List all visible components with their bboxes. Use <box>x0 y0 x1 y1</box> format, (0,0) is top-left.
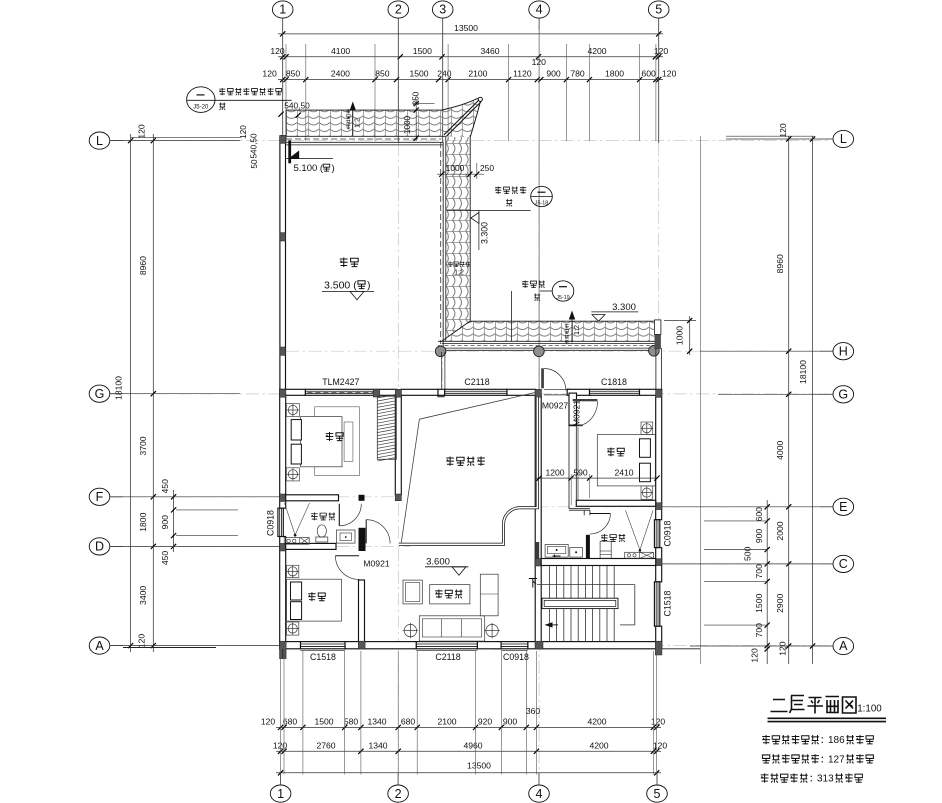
right bathroom shower <box>626 511 640 551</box>
window C1518 right wall <box>654 582 659 626</box>
right axis solid lines <box>726 138 820 140</box>
wall bedroom west lower <box>568 426 570 510</box>
svg-text:780: 780 <box>570 69 585 79</box>
roof band miter line <box>442 321 470 341</box>
dimension line bottom row1 <box>276 726 661 728</box>
dimension line 13500 bottom <box>276 772 661 774</box>
svg-text:50: 50 <box>250 159 259 169</box>
svg-text:120: 120 <box>662 69 677 79</box>
svg-text:1800: 1800 <box>605 69 624 79</box>
slope arrow top band <box>352 104 354 136</box>
svg-text:2900: 2900 <box>775 594 785 613</box>
svg-text:120: 120 <box>651 717 666 727</box>
svg-text:127: 127 <box>828 754 845 765</box>
svg-text:A: A <box>839 639 848 653</box>
svg-text:2410: 2410 <box>614 467 633 477</box>
hatched ladder strip <box>377 396 396 459</box>
door M0921 bedroom leaf <box>573 399 598 401</box>
stair down label <box>529 579 537 588</box>
living room void railing boundary <box>399 397 537 544</box>
svg-text:L: L <box>96 134 103 148</box>
svg-text:3.600: 3.600 <box>426 557 450 568</box>
door M0927 swing <box>544 369 566 391</box>
hall basin square <box>570 548 583 558</box>
svg-text:700: 700 <box>754 564 764 579</box>
dimension line right main segments <box>788 136 790 664</box>
svg-text:1: 1 <box>277 787 284 801</box>
svg-text:850: 850 <box>286 69 301 79</box>
wall bedroom west upper <box>569 393 577 425</box>
axis3 parapet H to G <box>441 352 443 389</box>
svg-text:18100: 18100 <box>798 360 808 384</box>
svg-text:1000: 1000 <box>403 115 412 134</box>
grid bubble L right <box>833 130 854 147</box>
sitting room armchair left <box>403 580 422 604</box>
left bathroom shower lines <box>285 503 296 535</box>
svg-text:J5-20: J5-20 <box>193 104 209 110</box>
bottom bedroom nightstand top <box>287 565 299 577</box>
title second floor plan <box>771 696 857 714</box>
dimension 1200/590/2410 <box>536 477 658 479</box>
eave ridge line <box>444 100 481 137</box>
vent shaft symbol top-left <box>288 140 291 163</box>
left bathroom toilet <box>316 537 328 542</box>
label sitting room <box>435 590 442 599</box>
window C0918 bottom <box>501 642 528 649</box>
stair direction line <box>537 584 635 586</box>
svg-text:H: H <box>839 344 848 358</box>
svg-text:450: 450 <box>160 551 170 566</box>
svg-text:2760: 2760 <box>316 741 335 751</box>
left axis solid lines <box>111 140 240 142</box>
svg-text:18100: 18100 <box>114 376 124 400</box>
svg-text:8960: 8960 <box>138 256 148 275</box>
wall axis 5 <box>656 397 662 520</box>
svg-text:1340: 1340 <box>368 741 387 751</box>
dimension line 13500 top <box>278 33 663 35</box>
svg-text:120: 120 <box>750 648 760 663</box>
grid bubble 3 top <box>432 1 453 18</box>
svg-text:J5-19: J5-19 <box>556 295 570 301</box>
svg-text:1200: 1200 <box>545 467 564 477</box>
svg-text:120: 120 <box>778 123 788 138</box>
window C2118 bottom <box>416 642 477 649</box>
door M0921 swing up (hall side) <box>365 520 367 544</box>
grid bubble E right <box>833 498 854 515</box>
beam under roof band bottom <box>438 340 656 342</box>
svg-text:900: 900 <box>546 69 561 79</box>
master bedroom bed <box>301 417 343 467</box>
svg-text:3.300: 3.300 <box>612 302 636 313</box>
svg-text:L: L <box>840 132 847 146</box>
wall axis 4 <box>535 395 541 641</box>
bedroom door jog wall <box>569 424 583 426</box>
sitting room coffee table <box>430 585 470 604</box>
title underline <box>768 717 887 719</box>
upturned eave corner <box>442 97 481 137</box>
svg-text:1500: 1500 <box>314 717 333 727</box>
svg-text:5: 5 <box>655 3 662 17</box>
roof tile band top <box>286 110 443 136</box>
axis5 wall blocks <box>656 389 662 397</box>
svg-text:M0927: M0927 <box>542 401 568 411</box>
svg-text:250: 250 <box>412 91 421 105</box>
column block G at TLM jamb <box>373 389 380 397</box>
master bed pillows <box>291 420 301 440</box>
terrace parapet top (dashed roof edge + wall) <box>286 138 441 140</box>
axis1 bottom dims block extension <box>282 649 284 659</box>
axis1 wall blocks <box>280 233 286 241</box>
svg-text:1000: 1000 <box>675 326 685 345</box>
svg-text:540,50: 540,50 <box>250 133 259 158</box>
grid bubble A right <box>833 637 854 654</box>
window C1518 bottom <box>301 642 346 649</box>
sitting room side table right <box>486 624 498 636</box>
wall bedroom/sitting room <box>359 580 365 642</box>
wall axis G segment right of M0927 <box>567 389 589 395</box>
grid bubble 1 bottom <box>270 785 291 802</box>
window TLM2427 <box>305 389 376 395</box>
svg-text:2100: 2100 <box>468 69 487 79</box>
grid bubble 5 top <box>648 1 669 18</box>
column block A wall mid <box>492 642 501 649</box>
grid bubble F left <box>89 488 110 505</box>
svg-text:120: 120 <box>653 741 668 751</box>
svg-text:G: G <box>95 387 105 401</box>
left bathroom floor strip <box>284 538 309 545</box>
grid centerline axis E <box>535 506 831 508</box>
svg-text:900: 900 <box>754 529 764 544</box>
grid bubble A left <box>89 637 110 654</box>
grid bubble 2 bottom <box>388 785 409 802</box>
door jamb wall at D <box>359 528 366 551</box>
svg-text:F: F <box>96 490 104 504</box>
hall bottom jog <box>569 508 590 510</box>
grid centerline axis C <box>535 563 831 565</box>
svg-text:8960: 8960 <box>775 254 785 273</box>
svg-text:E: E <box>839 500 847 514</box>
grid bubble G right <box>833 386 854 403</box>
dimension 250/1000 on top roof band <box>415 99 417 141</box>
dimension 1000/250 below eave <box>437 173 484 175</box>
svg-text:1000: 1000 <box>446 163 465 173</box>
svg-text:590: 590 <box>573 467 588 477</box>
wall axis G segment 1-2 <box>280 389 306 395</box>
wall axis 1 terrace parapet <box>280 137 286 389</box>
terrace label and level <box>340 258 348 268</box>
svg-text:920: 920 <box>478 717 493 727</box>
area text line 2 <box>762 755 769 763</box>
svg-text:120: 120 <box>239 125 248 139</box>
svg-text:240: 240 <box>437 69 452 79</box>
master bed runner <box>344 422 353 461</box>
svg-text:4100: 4100 <box>331 46 350 56</box>
svg-text:600: 600 <box>641 69 656 79</box>
svg-text:900: 900 <box>503 717 518 727</box>
svg-text:3700: 3700 <box>138 436 148 455</box>
svg-text:680: 680 <box>283 717 298 727</box>
svg-text:120: 120 <box>262 69 277 79</box>
bottom bedroom pillows <box>291 582 302 600</box>
svg-text:250: 250 <box>480 163 494 173</box>
grid centerline axis H <box>286 350 831 352</box>
dimension line top row2 <box>278 56 663 58</box>
door M0921 swing down (bedroom side) <box>335 555 359 557</box>
bathroom door leaf and swing (F wall) <box>338 504 340 526</box>
right extension vertical line <box>699 136 701 664</box>
svg-text:C0918: C0918 <box>266 510 276 536</box>
svg-text:3460: 3460 <box>480 46 499 56</box>
grid bubble 5 bottom <box>647 785 668 802</box>
svg-text:120: 120 <box>261 717 276 727</box>
grid centerline axis G <box>111 393 831 395</box>
svg-text:450: 450 <box>160 479 170 494</box>
bottom bedroom nightstand bottom <box>287 622 299 635</box>
svg-text:A: A <box>95 639 104 653</box>
svg-text:4200: 4200 <box>587 46 606 56</box>
top extension lines <box>285 44 287 141</box>
level mark 5.100 <box>289 150 300 158</box>
window C0918 left wall <box>278 508 283 536</box>
master nightstand top <box>286 404 299 417</box>
label right bedroom <box>607 448 614 457</box>
svg-text:680: 680 <box>401 717 416 727</box>
svg-text:C1518: C1518 <box>663 590 673 616</box>
window C0918 right wall <box>654 520 659 548</box>
svg-text:600: 600 <box>754 507 764 522</box>
svg-text:186: 186 <box>828 735 845 746</box>
wall axis 1 lower <box>280 395 286 508</box>
grid bubble D left <box>89 538 110 555</box>
level mark 3.300 right band <box>478 210 480 250</box>
grid centerline axis D <box>111 545 410 547</box>
grid centerline axis F <box>111 496 400 498</box>
wall axis G segment 2-3 <box>401 389 438 395</box>
slope label right band <box>448 262 453 267</box>
right bathroom floor strip <box>625 552 654 558</box>
svg-text:4960: 4960 <box>463 741 482 751</box>
dimension line bottom row2 <box>276 750 661 752</box>
svg-text:13500: 13500 <box>454 23 478 33</box>
svg-text:120: 120 <box>778 641 788 656</box>
slope arrow bottom band <box>571 313 573 343</box>
eave tip hook <box>478 97 482 101</box>
wall axis A <box>280 642 301 649</box>
stair handrail <box>542 598 618 608</box>
door M0921 bedroom swing <box>583 401 597 425</box>
dimension 1000 near H right <box>689 316 691 355</box>
svg-text:5.100 (: 5.100 ( <box>294 163 324 174</box>
window C1818 on G <box>590 389 640 395</box>
svg-text:1800: 1800 <box>138 512 148 531</box>
door jamb stub F wall <box>359 495 365 501</box>
svg-text:580: 580 <box>344 717 359 727</box>
left sub-dim tick lines <box>176 509 238 511</box>
dimension line right 18100 <box>812 136 814 664</box>
dimension line right sub segments <box>766 500 768 664</box>
svg-text:): ) <box>332 163 335 174</box>
round column at axis4/H <box>534 346 545 357</box>
void slant line top <box>419 392 536 419</box>
area text line 1 <box>762 735 770 744</box>
roof tile band right <box>442 137 470 341</box>
svg-text:1:2: 1:2 <box>572 325 581 335</box>
svg-text:4000: 4000 <box>775 441 785 460</box>
right sub-dim tick lines <box>704 520 768 522</box>
right bedroom pillows <box>640 439 651 458</box>
window C2118 on G <box>445 389 507 395</box>
svg-text:5: 5 <box>654 787 661 801</box>
round column at axis3/H <box>435 346 446 357</box>
dimension line top row3 <box>278 79 663 81</box>
svg-text:13500: 13500 <box>467 760 491 770</box>
wall axis 2 <box>395 395 401 495</box>
label master bedroom <box>326 432 334 441</box>
grid bubble 1 top <box>272 1 293 18</box>
svg-text:500: 500 <box>743 546 753 561</box>
dimension line left 18100 <box>130 134 132 652</box>
svg-text:2: 2 <box>395 3 402 17</box>
door jamb block M0927 left <box>567 389 569 396</box>
grid bubble C right <box>833 555 854 572</box>
svg-text:2: 2 <box>395 787 402 801</box>
wall axis G segment to axis5 <box>640 389 662 395</box>
svg-text:1500: 1500 <box>754 594 764 613</box>
detail bubble J5-18 railing note <box>531 186 553 206</box>
svg-text:3400: 3400 <box>138 586 148 605</box>
door right bathroom leaf and swing <box>590 513 611 515</box>
label living room void <box>446 457 454 466</box>
wall axis C stair top <box>541 559 656 566</box>
grid bubble H right <box>833 343 854 360</box>
roof tile band bottom <box>442 321 654 341</box>
svg-text:540,50: 540,50 <box>284 101 310 111</box>
svg-text:360: 360 <box>526 706 541 716</box>
master bedroom rug <box>315 407 360 476</box>
grid centerline axis 3 <box>442 143 444 397</box>
svg-text:4200: 4200 <box>589 741 608 751</box>
sitting room sofa main <box>419 616 484 641</box>
right bedroom nightstand top <box>641 422 653 435</box>
grid centerline axis L <box>111 140 831 142</box>
round column at axis5/H <box>649 346 660 357</box>
door M0927 leaf <box>541 368 544 388</box>
svg-text:C1518: C1518 <box>310 652 336 662</box>
svg-text:120: 120 <box>137 634 147 649</box>
svg-text:313: 313 <box>817 774 834 785</box>
svg-text:3.500 (: 3.500 ( <box>324 280 357 292</box>
svg-text:1:2: 1:2 <box>353 118 362 128</box>
area text line 3 <box>761 773 769 782</box>
grid centerline axis 4 <box>538 143 540 776</box>
svg-text:D: D <box>95 540 104 554</box>
terrace parapet right (dashed + wall) <box>440 142 442 344</box>
grid bubble 4 top <box>529 1 550 18</box>
svg-text:TLM2427: TLM2427 <box>322 377 359 387</box>
svg-text:4: 4 <box>536 3 543 17</box>
dimension line left sub 450/900/450 <box>173 490 175 552</box>
leader line meiren-kao <box>511 291 513 341</box>
label bottom bedroom <box>308 592 315 601</box>
sitting room side table left <box>404 624 416 636</box>
wall block right end of roof band <box>655 335 661 350</box>
grid bubble 2 top <box>388 1 409 18</box>
svg-text:M0921: M0921 <box>572 400 582 426</box>
void slant line left <box>401 419 419 543</box>
svg-text:1:100: 1:100 <box>857 704 882 715</box>
bottom bedroom bed <box>287 579 342 621</box>
wall axis D <box>286 543 336 549</box>
sitting room chair right <box>480 574 498 616</box>
grid bubble L left <box>89 132 110 149</box>
master nightstand bottom <box>286 468 299 481</box>
stair treads <box>548 566 550 641</box>
door jamb wall right bathroom <box>586 535 590 559</box>
left bathroom vanity <box>337 530 356 543</box>
svg-text:C2118: C2118 <box>435 652 460 662</box>
svg-text:4200: 4200 <box>587 717 606 727</box>
svg-text:850: 850 <box>375 69 390 79</box>
svg-text:2100: 2100 <box>437 717 456 727</box>
wall axis F bathroom top <box>286 495 339 501</box>
svg-text:120: 120 <box>137 124 147 139</box>
svg-text:1340: 1340 <box>367 717 386 727</box>
svg-text:2000: 2000 <box>775 521 785 540</box>
dimension line left segments <box>152 134 154 652</box>
axis5 wall H to G <box>655 348 657 390</box>
detail bubble J5-20 vent note <box>187 87 215 113</box>
grid centerline axis A <box>111 645 831 647</box>
svg-text:): ) <box>367 280 371 292</box>
svg-text:4: 4 <box>536 787 543 801</box>
svg-text:3.300: 3.300 <box>480 222 490 244</box>
svg-text:1:2: 1:2 <box>454 270 464 277</box>
svg-text:C: C <box>839 557 848 571</box>
svg-text:900: 900 <box>160 515 170 530</box>
svg-text:1500: 1500 <box>409 69 428 79</box>
svg-text:1120: 1120 <box>513 69 532 79</box>
grid centerline axis 2 <box>397 143 399 776</box>
svg-text:3: 3 <box>439 3 446 17</box>
grid centerline axis 5 <box>658 143 660 352</box>
svg-text:120: 120 <box>273 741 288 751</box>
wall axis G door M0927 opening threshold <box>544 388 567 390</box>
svg-text:1: 1 <box>279 3 286 17</box>
right bedroom bed <box>597 435 655 486</box>
right bedroom nightstand bottom <box>641 486 653 499</box>
svg-text:1500: 1500 <box>413 46 432 56</box>
grid bubble G left <box>89 385 110 402</box>
right bathroom toilet fixture <box>600 541 611 558</box>
wall bedroom bottom (E) <box>576 500 655 506</box>
svg-text:C0918: C0918 <box>663 520 673 546</box>
column block G axis3 <box>438 389 445 397</box>
label left bathroom <box>311 513 318 521</box>
detail bubble J5-19 meiren-kao note <box>552 281 574 301</box>
svg-text:M0921: M0921 <box>363 559 389 569</box>
svg-text:C0918: C0918 <box>503 652 529 662</box>
svg-text:C2118: C2118 <box>464 377 489 387</box>
wall axis G segment 3-4 <box>438 389 445 395</box>
stair arrow <box>546 624 558 626</box>
grid bubble 4 bottom <box>529 785 550 802</box>
svg-text:C1818: C1818 <box>601 377 627 387</box>
svg-text:J5-18: J5-18 <box>535 200 549 206</box>
hall washbasin counter <box>545 544 568 557</box>
bottom extension lines <box>280 651 282 775</box>
svg-text:2400: 2400 <box>331 69 350 79</box>
label right bathroom <box>601 534 608 542</box>
